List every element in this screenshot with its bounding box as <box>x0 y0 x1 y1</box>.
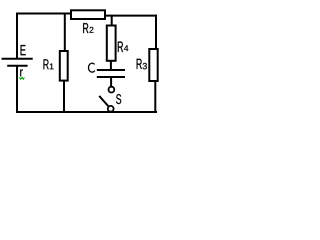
wire bottom rail <box>16 111 157 113</box>
wire R1 bottom lead <box>63 81 65 112</box>
switch S blade (open) <box>99 96 108 107</box>
label R4 <box>118 42 123 52</box>
label R3 <box>137 59 142 69</box>
wire right rail from top-right corner down to R3 <box>155 15 157 49</box>
label C <box>88 63 94 72</box>
capacitor C bottom plate <box>97 76 125 78</box>
wire mid branch drop from top rail to R4 <box>111 15 113 26</box>
label R2 <box>83 23 88 33</box>
wire R1 top lead from top rail <box>64 14 66 52</box>
battery E long plate (positive) <box>2 58 33 60</box>
label r (internal resistance) <box>20 69 23 76</box>
wire capacitor to switch upper contact <box>110 77 112 87</box>
wire R3 bottom lead to bottom-right corner <box>154 80 156 112</box>
capacitor C top plate <box>97 69 125 71</box>
resistor R4 <box>107 26 116 61</box>
wire top-right: R2 to top-right corner <box>105 15 156 17</box>
wire battery negative lead down to bottom rail <box>16 66 18 112</box>
wire R4 bottom lead to capacitor <box>110 61 112 70</box>
resistor R3 <box>149 49 157 81</box>
wire top-left: battery positive lead up and across to R2 <box>17 14 70 60</box>
grammar squiggle under r <box>20 77 25 79</box>
label R1 <box>44 59 49 69</box>
resistor R1 <box>60 51 68 81</box>
switch S lower contact circle <box>108 106 114 112</box>
label E <box>21 45 26 55</box>
switch S upper contact circle <box>109 87 115 93</box>
resistor R2 <box>71 10 105 19</box>
label S <box>116 94 121 104</box>
battery E short plate (negative) <box>7 65 27 67</box>
